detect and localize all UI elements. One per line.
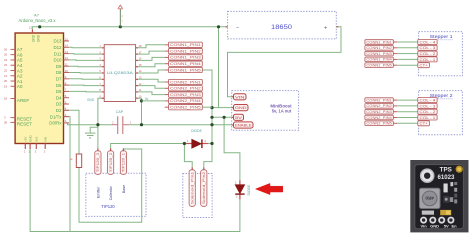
svg-text:25: 25 — [4, 53, 8, 57]
svg-text:CONN1_PIN2: CONN1_PIN2 — [170, 49, 201, 53]
svg-text:Stepper 1: Stepper 1 — [430, 34, 454, 39]
svg-text:Solenoid_Pin1: Solenoid_Pin1 — [190, 171, 194, 204]
svg-text:22: 22 — [4, 68, 8, 72]
svg-text:D0/Rx: D0/Rx — [49, 121, 62, 126]
svg-text:D12: D12 — [53, 45, 62, 50]
svg-text:5V: 5V — [235, 116, 243, 120]
svg-text:D9: D9 — [56, 64, 62, 69]
svg-text:COL - 1: COL - 1 — [420, 58, 436, 62]
svg-text:VIN: VIN — [235, 95, 245, 99]
svg-text:A0: A0 — [17, 84, 23, 89]
svg-text:CONN2_PIN2: CONN2_PIN2 — [366, 104, 391, 108]
svg-text:CONN1_PIN4: CONN1_PIN4 — [366, 58, 391, 62]
svg-text:4R0: 4R0 — [425, 195, 434, 200]
svg-text:A7: A7 — [34, 13, 40, 18]
svg-text:Stepper 2: Stepper 2 — [430, 93, 454, 98]
svg-text:GND: GND — [87, 98, 95, 102]
svg-text:CT+: CT+ — [420, 122, 428, 126]
svg-text:COL - 3: COL - 3 — [420, 104, 436, 108]
svg-text:Vin: Vin — [421, 224, 428, 229]
svg-text:CONN1_PIN2: CONN1_PIN2 — [366, 46, 391, 50]
svg-text:GND: GND — [28, 135, 32, 143]
svg-text:5v, 1A out: 5v, 1A out — [272, 109, 292, 114]
svg-text:GND: GND — [37, 34, 41, 42]
svg-text:RESET: RESET — [17, 121, 33, 126]
svg-text:TPS: TPS — [440, 167, 452, 174]
svg-text:A7: A7 — [17, 47, 23, 52]
svg-text:−: − — [236, 25, 239, 31]
svg-text:CONN2_PIN2: CONN2_PIN2 — [170, 87, 201, 91]
svg-text:CONN1_PIN5: CONN1_PIN5 — [170, 68, 201, 72]
svg-text:COL - 2: COL - 2 — [420, 52, 436, 56]
svg-text:CONN1_PIN3: CONN1_PIN3 — [366, 52, 391, 56]
svg-text:D13: D13 — [53, 39, 62, 44]
svg-text:Solenoid_Pin2: Solenoid_Pin2 — [202, 171, 206, 204]
svg-text:13: 13 — [65, 50, 69, 54]
svg-text:A3: A3 — [17, 68, 23, 73]
svg-text:14: 14 — [65, 44, 69, 48]
svg-text:D7: D7 — [56, 77, 62, 82]
svg-text:CONN2_PIN1: CONN2_PIN1 — [170, 80, 201, 84]
svg-text:COL - 4: COL - 4 — [420, 99, 436, 103]
svg-text:TIP120_2: TIP120_2 — [109, 152, 113, 172]
svg-text:D2: D2 — [56, 108, 62, 113]
svg-text:24: 24 — [4, 58, 8, 62]
svg-text:ULQ2803A: ULQ2803A — [107, 71, 134, 75]
svg-text:D4: D4 — [56, 95, 62, 100]
svg-text:11: 11 — [65, 63, 68, 67]
svg-text:CT+: CT+ — [420, 64, 428, 68]
svg-text:12: 12 — [65, 56, 69, 60]
svg-text:18: 18 — [4, 97, 8, 101]
svg-text:28: 28 — [4, 120, 8, 124]
svg-text:En: En — [451, 224, 457, 229]
svg-text:AREF: AREF — [17, 98, 30, 103]
svg-text:TIP120_1: TIP120_1 — [122, 152, 126, 172]
svg-text:23: 23 — [4, 63, 8, 67]
svg-text:CONN2_PIN4: CONN2_PIN4 — [170, 99, 201, 103]
svg-text:5V: 5V — [444, 224, 449, 229]
svg-text:VIN: VIN — [44, 137, 48, 142]
svg-text:D10: D10 — [53, 58, 62, 63]
svg-text:TIP120_3: TIP120_3 — [96, 152, 100, 172]
svg-text:61023: 61023 — [438, 174, 456, 181]
svg-text:Collector: Collector — [109, 185, 113, 200]
svg-text:CONN1_PIN5: CONN1_PIN5 — [366, 64, 391, 68]
svg-text:CONN1_PIN1: CONN1_PIN1 — [170, 43, 201, 47]
svg-text:CONN1_PIN4: CONN1_PIN4 — [170, 62, 201, 66]
svg-text:CONN1_PIN1: CONN1_PIN1 — [366, 40, 391, 44]
svg-text:D11: D11 — [54, 51, 62, 56]
svg-text:10: 10 — [65, 69, 69, 73]
svg-text:Arduino_Nano_v3.x: Arduino_Nano_v3.x — [19, 18, 57, 23]
svg-text:A5: A5 — [17, 58, 23, 63]
svg-text:5v: 5v — [145, 97, 149, 101]
svg-text:GND: GND — [235, 106, 247, 110]
svg-text:COL - 2: COL - 2 — [420, 110, 436, 114]
svg-text:15: 15 — [65, 37, 69, 41]
svg-text:GND: GND — [32, 34, 36, 42]
svg-text:DIODE: DIODE — [191, 129, 202, 133]
svg-text:CONN2_PIN3: CONN2_PIN3 — [366, 110, 391, 114]
svg-text:CONN2_PIN4: CONN2_PIN4 — [366, 116, 391, 120]
svg-text:ENABLE: ENABLE — [235, 124, 252, 128]
svg-text:A6: A6 — [17, 52, 23, 57]
svg-text:D3: D3 — [56, 102, 62, 107]
svg-text:20: 20 — [4, 79, 8, 83]
svg-text:Emitter: Emitter — [96, 186, 100, 198]
svg-text:D5: D5 — [56, 89, 62, 94]
svg-text:CONN2_PIN5: CONN2_PIN5 — [366, 122, 391, 126]
svg-text:+: + — [324, 25, 327, 31]
svg-text:A2: A2 — [17, 74, 23, 79]
svg-text:+5V: +5V — [24, 137, 28, 142]
svg-text:A4: A4 — [17, 63, 23, 68]
svg-text:Base: Base — [122, 185, 126, 193]
svg-text:3V3: 3V3 — [35, 136, 39, 142]
svg-text:CAP: CAP — [116, 110, 124, 114]
svg-text:18650: 18650 — [271, 24, 293, 31]
svg-text:TIP120: TIP120 — [101, 204, 115, 209]
svg-text:CONN2_PIN1: CONN2_PIN1 — [366, 98, 391, 102]
svg-text:A1: A1 — [17, 79, 23, 84]
svg-text:CONN2_PIN5: CONN2_PIN5 — [170, 106, 201, 110]
svg-text:26: 26 — [4, 47, 8, 51]
svg-text:DIODE: DIODE — [247, 184, 251, 195]
svg-text:D1/Tx: D1/Tx — [50, 114, 63, 119]
svg-text:GND: GND — [430, 224, 439, 229]
svg-text:COL - 4: COL - 4 — [420, 40, 436, 44]
svg-text:D6: D6 — [56, 83, 62, 88]
svg-text:CONN2_PIN3: CONN2_PIN3 — [170, 93, 201, 97]
svg-text:COL - 1: COL - 1 — [420, 116, 436, 120]
svg-text:21: 21 — [4, 74, 8, 78]
svg-text:19: 19 — [4, 84, 8, 88]
svg-text:COL - 3: COL - 3 — [420, 46, 436, 50]
svg-text:12: 12 — [29, 26, 33, 30]
svg-text:CONN1_PIN3: CONN1_PIN3 — [170, 56, 201, 60]
svg-text:D8: D8 — [56, 70, 62, 75]
